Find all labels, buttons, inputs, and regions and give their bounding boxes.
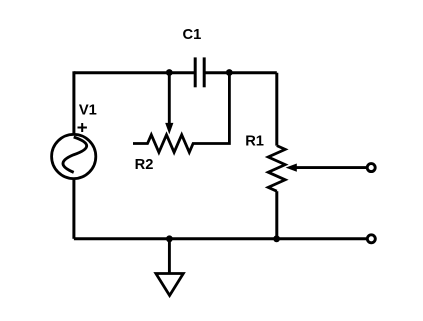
resistor R2 (potentiometer body) [133,73,229,153]
resistor R1 (potentiometer body) [268,146,285,192]
node junction R1 bottom [273,235,280,242]
wire R2 wiper shaft [168,73,171,125]
node junction left of C1 [166,69,173,76]
V1 plus polarity mark [78,123,87,132]
capacitor C1 [195,57,204,87]
svg-text:C1: C1 [183,27,202,43]
ground [156,239,183,296]
wiper arrow of R1 [286,164,367,172]
C1 left plate [194,57,197,87]
terminal top [367,164,375,172]
voltage source V1 [52,123,96,179]
svg-text:R1: R1 [245,133,264,149]
node junction right of C1 [226,69,233,76]
wire R1 branch upper [275,73,278,146]
wire bottom [74,237,366,240]
ground triangle [156,274,183,296]
wire top right segment [204,71,277,74]
wire left vertical upper [72,71,75,134]
svg-text:V1: V1 [79,103,97,119]
node junction ground [166,235,173,242]
V1 sine wave [63,137,87,172]
wire left vertical lower [72,179,75,239]
wire top left segment [74,71,195,74]
V1 circle body [52,134,96,178]
wiper arrow of R2 [165,73,173,135]
wire ground stub [168,239,171,274]
terminal bottom [367,235,375,243]
R1 wiper arrowhead [286,164,297,172]
svg-text:R2: R2 [135,157,154,173]
wire R1 branch lower [275,191,278,239]
R2 wiper arrowhead [165,123,173,134]
wire R1 wiper to terminal [296,166,367,169]
C1 right plate [203,57,206,87]
